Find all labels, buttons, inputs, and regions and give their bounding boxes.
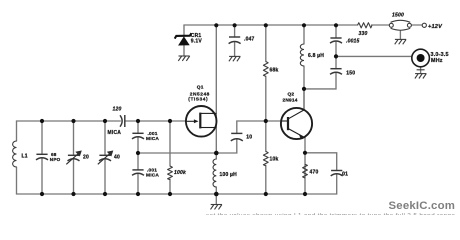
svg-text:MHz: MHz bbox=[431, 58, 443, 64]
svg-text:MICA: MICA bbox=[108, 130, 122, 136]
svg-text:10k: 10k bbox=[270, 157, 279, 163]
svg-text:330: 330 bbox=[359, 31, 368, 37]
svg-text:2N5248: 2N5248 bbox=[190, 92, 210, 98]
svg-text:100k: 100k bbox=[174, 170, 186, 176]
svg-text:470: 470 bbox=[310, 170, 319, 176]
svg-text:+12V: +12V bbox=[428, 24, 443, 30]
svg-text:1500: 1500 bbox=[392, 12, 404, 18]
svg-text:.047: .047 bbox=[244, 37, 255, 43]
svg-text:MICA: MICA bbox=[146, 172, 159, 178]
svg-text:(TIS34): (TIS34) bbox=[188, 97, 208, 103]
svg-text:set the values shown using L1: set the values shown using L1 and the tr… bbox=[206, 213, 455, 215]
svg-text:MICA: MICA bbox=[146, 136, 159, 142]
svg-text:NPO: NPO bbox=[50, 157, 61, 162]
svg-text:9.1V: 9.1V bbox=[191, 38, 203, 44]
svg-text:L1: L1 bbox=[22, 154, 28, 160]
svg-text:150: 150 bbox=[346, 71, 355, 77]
svg-text:6.8 µH: 6.8 µH bbox=[308, 53, 324, 59]
svg-text:68k: 68k bbox=[270, 68, 279, 74]
svg-text:40: 40 bbox=[114, 155, 120, 161]
svg-text:SeekIC.com: SeekIC.com bbox=[389, 200, 456, 212]
svg-text:10: 10 bbox=[246, 135, 252, 141]
svg-text:Q1: Q1 bbox=[197, 84, 204, 90]
svg-text:2N914: 2N914 bbox=[283, 98, 298, 104]
svg-text:120: 120 bbox=[113, 107, 122, 113]
svg-text:20: 20 bbox=[83, 155, 89, 161]
svg-text:.0015: .0015 bbox=[346, 38, 360, 44]
svg-text:Q2: Q2 bbox=[288, 92, 295, 98]
svg-text:100 µH: 100 µH bbox=[220, 172, 238, 178]
svg-text:.01: .01 bbox=[341, 171, 349, 177]
